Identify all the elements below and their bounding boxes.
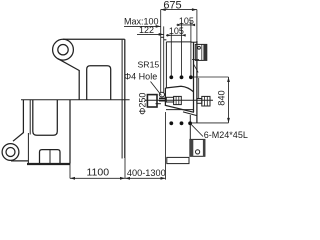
wire cover front vertical: [165, 42, 167, 88]
svg-text:SR15: SR15: [138, 60, 160, 70]
svg-text:400-1300: 400-1300: [127, 168, 166, 178]
wire cover step2: [164, 39, 167, 41]
resistor left bolt shaft: [166, 97, 173, 102]
wire cover step1: [161, 36, 164, 38]
wire left bolt facet2: [178, 96, 180, 104]
node leg right vertical: [69, 100, 71, 164]
diagram carriage bracket outline: [165, 86, 194, 112]
svg-text:105: 105: [179, 16, 194, 26]
wire ext mid at body edge: [124, 158, 126, 178]
svg-text:840: 840: [216, 90, 226, 106]
capacitor nozzle ring phi250: [147, 95, 157, 107]
capacitor right foot right band: [203, 139, 205, 156]
svg-text:Φ250: Φ250: [138, 93, 148, 115]
resistor pocket1 rounded window: [87, 66, 111, 100]
resistor right bolt shaft: [197, 99, 202, 104]
svg-text:122: 122: [139, 25, 154, 35]
wire left bolt facet1: [175, 96, 177, 104]
node leg inner vertical: [29, 100, 31, 135]
wire dim 675 line: [161, 9, 197, 11]
capacitor right foot left band: [190, 139, 193, 156]
wire body top edge: [63, 38, 125, 40]
resistor foot bumps: [40, 150, 61, 164]
node main centerline right segment: [145, 99, 213, 101]
wire eye bottom tangent: [11, 160, 28, 162]
wire top block inner line: [201, 44, 203, 60]
capacitor top block dark band: [203, 44, 206, 60]
wire ring cone bottom: [156, 103, 161, 105]
wire gusset diagonal: [193, 64, 198, 73]
wire dim bottom line: [70, 177, 166, 179]
wire foot bump divider: [49, 150, 51, 164]
transistor eye circle outer: [2, 144, 19, 161]
transistor lug circle inner: [58, 45, 68, 55]
wire lug diagonal: [58, 59, 79, 71]
transistor eye circle inner: [6, 148, 15, 157]
svg-text:105: 105: [169, 26, 184, 36]
capacitor base thick line: [27, 163, 70, 165]
wire extension line V1 nozzle tip: [160, 10, 162, 93]
svg-text:6-M24*45L: 6-M24*45L: [204, 130, 248, 140]
wire dim 105 right line: [177, 24, 196, 26]
node platen right face: [196, 41, 198, 123]
wire leader 6-M24: [190, 123, 203, 136]
wire ext right at carriage: [165, 112, 167, 180]
wire bracket inner bottom: [166, 109, 194, 111]
node platen left face: [193, 42, 195, 112]
node leg left vertical: [22, 100, 24, 133]
diagram top block on platen: [195, 44, 207, 60]
wire bracket lower slant: [183, 112, 197, 116]
wire right bolt facet2: [206, 96, 208, 106]
diagram right foot block: [190, 139, 205, 156]
wire dim Max100 line: [124, 25, 161, 27]
svg-text:1100: 1100: [87, 167, 110, 179]
wire ext 1100 left: [69, 164, 71, 179]
resistor right bolt head: [202, 96, 210, 106]
wire extension line col2: [181, 23, 183, 78]
wire dim 840 line: [228, 77, 230, 123]
resistor left bolt head: [174, 96, 182, 104]
node body right edge inner: [121, 40, 123, 159]
svg-text:Φ4 Hole: Φ4 Hole: [124, 72, 157, 82]
svg-text:675: 675: [163, 0, 181, 11]
diagram base rail strip: [167, 157, 189, 163]
node bolt hole row2: [169, 121, 192, 125]
wire dim 122 line: [137, 33, 164, 35]
node body right edge outer: [124, 39, 126, 158]
resistor pocket2 rounded window: [33, 100, 58, 135]
wire extension line col3: [190, 21, 192, 77]
wire dim 105 mid line: [166, 34, 183, 36]
capacitor nozzle tip block: [159, 98, 166, 100]
transistor lug circle outer: [53, 39, 74, 60]
wire dim 840 ext top: [191, 76, 228, 78]
wire bracket edge vertical: [189, 115, 191, 139]
diode nozzle tip ellipse: [159, 92, 164, 97]
wire top block bottom line: [192, 59, 199, 61]
wire extension line col1: [170, 33, 172, 77]
wire eye rear vertical: [27, 133, 29, 164]
node arrowheads: [70, 8, 230, 180]
node main centerline left segment: [21, 99, 130, 101]
wire extension line V2: [163, 26, 165, 92]
transistor right foot hole: [196, 150, 200, 154]
wire dim 840 ext bottom: [192, 122, 229, 124]
wire cover step vertical: [190, 41, 192, 42]
wire right bolt facet1: [204, 96, 206, 106]
wire platen top edge: [191, 41, 197, 43]
wire right bolt stem: [198, 78, 200, 98]
wire diagonal to eye lug: [13, 133, 23, 142]
wire extension 675 right / platen: [196, 10, 198, 41]
wire leader phi4 hole: [151, 82, 162, 96]
node bolt hole row1: [169, 75, 192, 79]
wire cover top edge: [166, 41, 191, 43]
wire lug inner vertical: [78, 70, 80, 100]
transistor top block hole: [198, 46, 201, 49]
